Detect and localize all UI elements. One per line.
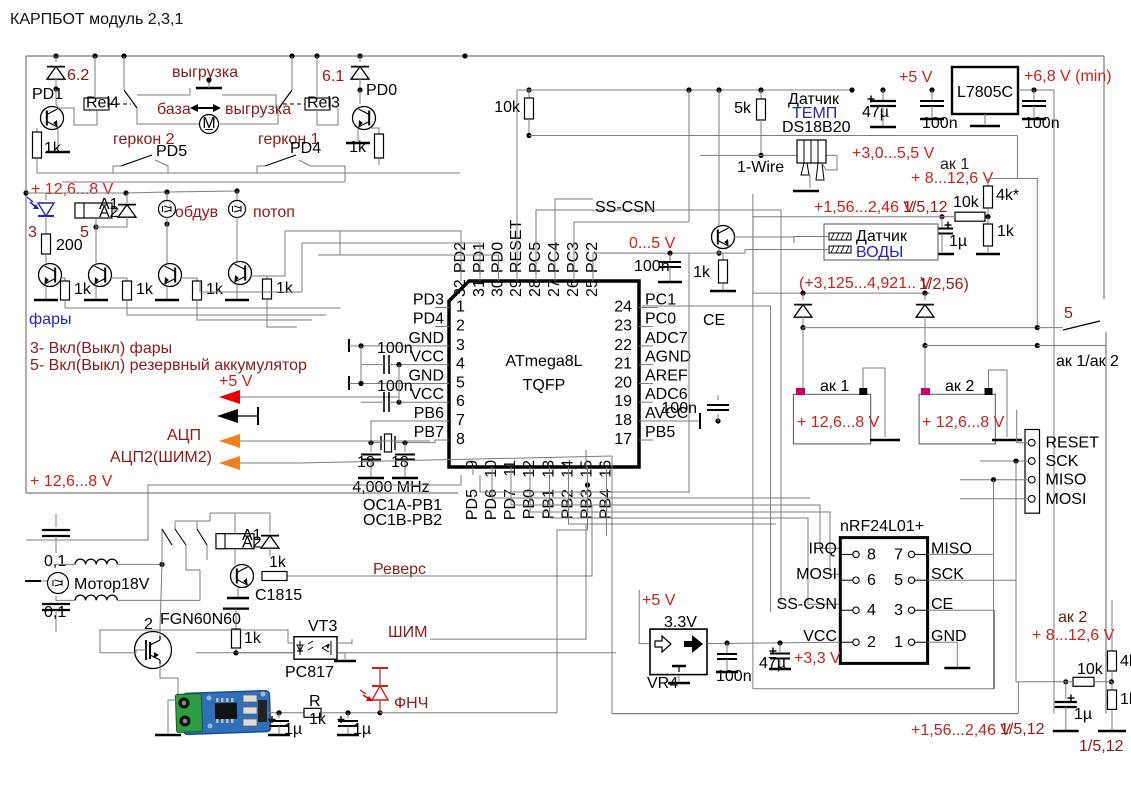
svg-text:3.3V: 3.3V — [664, 614, 697, 631]
arrow АЦП — [219, 434, 240, 448]
node PD1 — [53, 86, 58, 91]
svg-text:1µ: 1µ — [949, 233, 967, 250]
svg-text:22: 22 — [614, 337, 632, 354]
ground L7805C — [984, 114, 986, 124]
wire PB7 — [371, 442, 381, 444]
svg-text:ШИМ: ШИМ — [388, 624, 428, 641]
IC L7805C — [952, 67, 1018, 114]
fan потоп — [236, 191, 238, 200]
pin ISP RESET — [1028, 439, 1035, 446]
svg-text:+3,0...5,5 V: +3,0...5,5 V — [852, 145, 935, 162]
diode ak2 — [924, 293, 926, 300]
IC VR4 3.3V — [650, 629, 707, 675]
module passives — [243, 695, 257, 702]
wire bus 293 — [753, 292, 930, 294]
node обдув — [164, 221, 169, 226]
transistor T3 — [159, 264, 182, 287]
svg-text:100n: 100n — [922, 115, 958, 132]
wire PD1 col — [302, 243, 480, 275]
wire ФНЧ net — [557, 530, 588, 713]
svg-text:8: 8 — [867, 546, 876, 563]
resistor 1k T2 — [110, 278, 127, 281]
svg-text:4k*: 4k* — [1120, 653, 1131, 670]
wire Реверс — [287, 505, 592, 576]
svg-text:ак 2: ак 2 — [945, 378, 974, 395]
ground ak1 — [870, 439, 900, 442]
pin ISP MISO — [1028, 476, 1035, 483]
wire PC2 col — [593, 253, 648, 275]
wire ak2 minus — [989, 370, 1008, 437]
wire ch right3 — [530, 512, 840, 574]
capacitor 1u bottom — [1065, 682, 1067, 699]
svg-text:1k: 1k — [693, 264, 711, 281]
svg-text:4k*: 4k* — [996, 187, 1019, 204]
ground T3 — [166, 286, 168, 300]
wire igbt top — [160, 564, 162, 636]
svg-text:6: 6 — [456, 393, 465, 410]
capacitor avcc 100n — [653, 420, 672, 422]
svg-text:VT3: VT3 — [308, 618, 337, 635]
ground water — [710, 290, 736, 293]
svg-text:0,1: 0,1 — [44, 553, 66, 570]
wire 1-Wire — [700, 154, 761, 156]
svg-text:MISO: MISO — [1046, 472, 1087, 489]
wire Q1 collector to Rel4 — [58, 108, 97, 125]
terminator GND pin5 — [348, 376, 350, 390]
svg-text:+6,8 V (min): +6,8 V (min) — [1024, 68, 1112, 85]
wire PC4 col — [555, 199, 593, 275]
resistor 1k T3 — [180, 278, 197, 281]
ground DS18B20 — [793, 190, 819, 193]
svg-text:1k: 1k — [206, 281, 224, 298]
wire to terminal1 — [794, 237, 829, 244]
wire PC5 col — [536, 210, 648, 275]
wire PD5 long right — [168, 172, 460, 174]
wire выгрузка right throw — [222, 95, 276, 108]
wire top border — [26, 55, 1104, 57]
svg-text:Мотор18V: Мотор18V — [74, 576, 150, 593]
node ak1 sw — [800, 325, 805, 330]
ground Q1 — [57, 129, 59, 152]
svg-text:1/5,12: 1/5,12 — [903, 199, 948, 216]
svg-text:КАРПБОТ модуль 2,3,1: КАРПБОТ модуль 2,3,1 — [10, 11, 183, 28]
svg-text:ADC7: ADC7 — [645, 330, 688, 347]
sensor leads — [801, 163, 809, 175]
svg-text:MOSI: MOSI — [1046, 491, 1087, 508]
svg-text:SCK: SCK — [1046, 453, 1079, 470]
wire T3 base net — [197, 312, 312, 320]
wire L7805 out — [1018, 89, 1054, 91]
svg-text:L7805C: L7805C — [957, 84, 1013, 101]
node module out2 — [345, 710, 350, 715]
node emitter — [716, 251, 721, 256]
svg-text:PB7: PB7 — [414, 424, 444, 441]
svg-text:ФНЧ: ФНЧ — [394, 695, 428, 712]
svg-text:+1,56...2,46 V: +1,56...2,46 V — [911, 722, 1011, 739]
wire left border — [25, 56, 27, 493]
svg-text:18: 18 — [391, 454, 409, 471]
svg-text:18: 18 — [614, 412, 632, 429]
svg-text:RESET: RESET — [1046, 435, 1100, 452]
wire ch right2 — [511, 505, 840, 548]
svg-text:20: 20 — [614, 375, 632, 392]
svg-text:Датчик: Датчик — [856, 228, 908, 245]
capacitor 47u vr4 — [779, 643, 781, 652]
resistor 10k ak1 — [955, 212, 985, 221]
svg-text:потоп: потоп — [253, 204, 295, 221]
svg-text:5: 5 — [456, 375, 465, 392]
pin ISP MOSI — [1028, 495, 1035, 502]
node motor+ — [159, 562, 164, 567]
svg-text:DS18B20: DS18B20 — [782, 119, 851, 136]
wire MISO down — [993, 480, 995, 689]
ground C1815 — [237, 587, 239, 598]
cap plates join — [55, 514, 57, 521]
svg-text:TQFP: TQFP — [523, 377, 566, 394]
transistor T4 — [229, 262, 252, 285]
wire +5 to vr4 — [639, 590, 650, 644]
wire ak2 feed — [1111, 600, 1113, 651]
wire ak2 down — [924, 346, 926, 395]
wire T1 base net — [65, 307, 340, 310]
wire ch7 — [568, 475, 570, 524]
wire выгрузка left throw — [137, 88, 190, 95]
svg-text:+ 12,6...8 V: + 12,6...8 V — [922, 414, 1005, 431]
wire ISP SCK — [980, 460, 1028, 462]
ground ak2 — [992, 439, 1022, 442]
svg-text:200: 200 — [56, 237, 83, 254]
svg-text:24: 24 — [614, 299, 632, 316]
wire motor2 — [199, 570, 201, 600]
wire ch4 — [510, 475, 512, 505]
ground T2 — [95, 286, 97, 300]
box Датчик ВОДЫ — [824, 224, 938, 260]
svg-text:100n: 100n — [377, 340, 413, 357]
svg-text:1k: 1k — [349, 139, 367, 156]
wire ISP MOSI — [960, 498, 1028, 500]
wire ch2 — [480, 475, 690, 492]
wire sensor right lead — [822, 155, 837, 170]
wire PB6 loop — [371, 421, 435, 443]
dashed link Rel4 — [109, 103, 131, 105]
svg-text:3: 3 — [28, 224, 37, 241]
vr4 gnd mark — [672, 665, 686, 668]
svg-text:ак 1: ак 1 — [820, 378, 849, 395]
svg-text:1k: 1k — [276, 280, 294, 297]
svg-text:47µ: 47µ — [862, 104, 889, 121]
transistor T1 фары — [39, 264, 62, 287]
wire потоп to T4 — [236, 217, 238, 261]
wire vr4 out — [707, 642, 840, 643]
svg-text:PC817: PC817 — [285, 664, 334, 681]
terminal - ak2 — [985, 388, 993, 395]
wire right border lower — [1105, 332, 1107, 714]
svg-text:1-Wire: 1-Wire — [737, 159, 784, 176]
svg-text:A2: A2 — [242, 535, 262, 552]
svg-text:PD5: PD5 — [464, 489, 481, 520]
relay coil K-rev — [216, 534, 254, 549]
svg-text:1µ: 1µ — [353, 721, 371, 738]
wire RESET col — [516, 90, 518, 275]
svg-text:Rel4: Rel4 — [86, 95, 119, 112]
relay contacts H — [161, 529, 163, 564]
svg-text:28: 28 — [527, 279, 544, 297]
diode K-rev — [261, 536, 279, 549]
svg-text:100n: 100n — [1024, 115, 1060, 132]
svg-text:1k: 1k — [244, 630, 262, 647]
svg-text:ВОДЫ: ВОДЫ — [856, 244, 903, 261]
resistor 10k bottom — [1073, 677, 1094, 686]
capacitor 100n 0..5 — [669, 253, 671, 262]
wire bus y136 — [529, 135, 1017, 137]
wire +12 rail — [26, 192, 46, 194]
IC nRF24L01+ body — [840, 538, 927, 664]
wire div2 to bus — [1018, 682, 1065, 714]
wire Rel3 bottom to Q2 — [317, 108, 338, 125]
motor Мотор18V — [48, 573, 69, 594]
wire gnd1-vert — [360, 346, 362, 384]
node div2 — [1109, 679, 1114, 684]
pin ISP SCK — [1028, 458, 1035, 465]
IGBT FGN60N60 — [135, 632, 172, 669]
relay K5 coil — [75, 203, 112, 218]
svg-text:31: 31 — [471, 279, 488, 297]
svg-text:+1,56...2,46 V: +1,56...2,46 V — [814, 199, 914, 216]
svg-text:29: 29 — [508, 279, 525, 297]
capacitor 18p #1 — [370, 443, 372, 452]
transistor Q water — [712, 226, 735, 249]
capacitor 0,1 lower — [55, 596, 57, 601]
svg-text:7: 7 — [456, 412, 465, 429]
resistor 1k bottom — [1111, 682, 1113, 690]
resistor 1k T1 — [60, 278, 65, 281]
wire module out — [267, 712, 304, 714]
svg-text:100n: 100n — [716, 668, 752, 685]
wire ch3 — [491, 475, 493, 498]
diode LED red ФНЧ — [377, 710, 382, 715]
switch right contact — [291, 56, 293, 90]
dashed link Rel3 — [283, 103, 305, 105]
svg-text:+ 12,6...8 V: + 12,6...8 V — [30, 473, 113, 490]
wire PD1 to base — [55, 89, 57, 104]
svg-text:1µ: 1µ — [284, 721, 302, 738]
svg-text:АЦП: АЦП — [167, 427, 201, 444]
svg-text:100n: 100n — [661, 400, 697, 417]
wire gate — [136, 650, 146, 653]
vr4 black arrow — [684, 635, 703, 653]
svg-text:1k: 1k — [74, 281, 92, 298]
svg-text:OC1B-PB2: OC1B-PB2 — [363, 512, 442, 529]
wire SS-CSN — [648, 209, 781, 211]
node PD0 — [357, 87, 362, 92]
capacitor 100n avcc2 — [717, 414, 719, 421]
T bar collector — [223, 607, 249, 609]
svg-text:17: 17 — [614, 431, 632, 448]
svg-text:FGN60N60: FGN60N60 — [160, 611, 241, 628]
capacitor 47u input — [880, 87, 885, 92]
svg-text:+ 8...12,6 V: + 8...12,6 V — [911, 170, 994, 187]
svg-text:1/5,12: 1/5,12 — [1079, 738, 1124, 755]
wire PD0 col — [340, 255, 499, 275]
terminal hatched 1 — [829, 233, 851, 240]
svg-text:база: база — [157, 101, 191, 118]
svg-text:0...5 V: 0...5 V — [629, 235, 676, 252]
svg-text:MOSI: MOSI — [796, 566, 837, 583]
svg-text:0,1: 0,1 — [44, 604, 66, 621]
resistor R module — [304, 708, 321, 717]
svg-text:26: 26 — [565, 279, 582, 297]
svg-text:+5 V: +5 V — [899, 69, 933, 86]
wire ch6 — [549, 475, 551, 518]
svg-text:ак 2: ак 2 — [1058, 609, 1087, 626]
wire CE net — [928, 609, 995, 611]
svg-text:1µ: 1µ — [1074, 706, 1092, 723]
node relay A2 — [93, 224, 98, 229]
svg-text:GND: GND — [408, 368, 444, 385]
diode K5 — [126, 193, 128, 198]
svg-text:5- Вкл(Выкл) резервный аккумул: 5- Вкл(Выкл) резервный аккумулятор — [30, 357, 307, 374]
box nrf section — [753, 688, 995, 690]
wire 0..5V bus — [600, 252, 745, 254]
svg-text:1k: 1k — [309, 711, 327, 728]
svg-text:100n: 100n — [634, 258, 670, 275]
svg-text:(+3,125...4,921.. V: (+3,125...4,921.. V — [799, 275, 931, 292]
optocoupler PC817 — [294, 637, 337, 660]
wire col 613 — [611, 456, 613, 714]
wire water base — [734, 237, 794, 243]
svg-text:1k: 1k — [269, 554, 287, 571]
wire staircase PD0b — [318, 231, 340, 255]
module chip — [215, 703, 238, 720]
wire T4 base net — [267, 307, 297, 327]
inductor L2 — [75, 595, 117, 600]
capacitor 100n output — [1033, 90, 1035, 101]
svg-text:+ 12,6...8 V: + 12,6...8 V — [797, 414, 880, 431]
wire Rel3 top — [316, 56, 318, 98]
resistor 4k* bottom — [1108, 651, 1117, 671]
svg-text:Реверс: Реверс — [373, 561, 426, 578]
wire div to adc — [907, 216, 942, 218]
node 1wire — [758, 153, 763, 158]
svg-text:2: 2 — [456, 318, 465, 335]
svg-text:3: 3 — [456, 337, 465, 354]
svg-text:25: 25 — [584, 279, 601, 297]
junction bus y90 — [686, 87, 691, 92]
svg-text:обдув: обдув — [175, 204, 218, 221]
ground 1k bottom — [1098, 730, 1126, 733]
resistor 1k water — [718, 249, 720, 253]
svg-text:АЦП2(ШИМ2): АЦП2(ШИМ2) — [110, 449, 212, 466]
switch left contact — [123, 56, 125, 90]
terminal + ak1 — [796, 388, 805, 395]
resistor 1k ak1 — [987, 217, 989, 224]
wire Rel4 top — [94, 56, 96, 98]
wire ak1 down — [802, 328, 804, 395]
wire ak1 to switch — [803, 327, 1037, 329]
wire ШИМ — [196, 652, 236, 654]
crystal X1 — [380, 436, 382, 450]
wire bus136 corner — [988, 136, 1017, 179]
svg-text:PB6: PB6 — [414, 405, 444, 422]
svg-text:SS-CSN: SS-CSN — [595, 199, 655, 216]
svg-text:+5 V: +5 V — [219, 373, 253, 390]
ground Q2 — [357, 129, 359, 143]
fan обдув — [166, 192, 168, 200]
wire АЦП2 route — [300, 456, 612, 463]
svg-text:Rel3: Rel3 — [307, 95, 340, 112]
svg-text:AREF: AREF — [645, 368, 688, 385]
svg-text:1/2,56): 1/2,56) — [919, 276, 969, 293]
svg-text:CE: CE — [703, 312, 725, 329]
svg-text:SS-CSN: SS-CSN — [777, 596, 837, 613]
node div1 left — [939, 214, 944, 219]
svg-text:10k: 10k — [953, 194, 980, 211]
svg-text:7: 7 — [894, 546, 903, 563]
relay Rel4 box — [84, 98, 109, 110]
svg-text:6: 6 — [867, 572, 876, 589]
svg-text:32: 32 — [452, 279, 469, 297]
wire relay top — [210, 513, 235, 534]
vr4 white arrow — [655, 636, 671, 652]
node gate wire — [233, 650, 238, 655]
resistor 1k Q1 emitter — [36, 128, 38, 132]
svg-text:C1815: C1815 — [255, 587, 302, 604]
IC U1 ATmega8L body — [449, 281, 639, 467]
module terminal block — [175, 694, 202, 733]
wire PD4 to right — [310, 166, 345, 182]
svg-text:27: 27 — [546, 279, 563, 297]
capacitor 100n vr4 — [726, 643, 728, 654]
capacitor 18p #2 — [395, 454, 415, 456]
svg-text:PD5: PD5 — [156, 143, 187, 160]
relay contacts H2 — [196, 521, 198, 529]
battery ак 2 — [919, 394, 995, 444]
node div1 — [985, 214, 990, 219]
svg-text:выгрузка: выгрузка — [225, 101, 291, 118]
reed switch PD4 — [257, 166, 265, 173]
inductor L1 — [75, 559, 117, 564]
svg-text:PD3: PD3 — [413, 292, 444, 309]
svg-text:выгрузка: выгрузка — [172, 64, 238, 81]
capacitor 100n input — [929, 87, 934, 92]
svg-text:21: 21 — [614, 356, 632, 373]
transistor Q2 PD0 — [359, 90, 361, 104]
svg-text:47µ: 47µ — [759, 655, 786, 672]
diode 6.2 — [55, 56, 57, 62]
wire staircase PD1b — [200, 243, 302, 292]
junction top rail — [53, 53, 58, 58]
battery ак 1 — [793, 394, 870, 444]
svg-text:1: 1 — [456, 299, 465, 316]
svg-text:1: 1 — [894, 634, 903, 651]
svg-text:VCC: VCC — [410, 349, 444, 366]
module ACS712 board — [182, 690, 270, 734]
svg-text:A2: A2 — [99, 204, 119, 221]
svg-text:5: 5 — [80, 224, 89, 241]
wire igbt bottom — [160, 664, 178, 700]
wire col 689 lower — [688, 253, 690, 492]
svg-text:10k: 10k — [1077, 661, 1104, 678]
terminal hatched 2 — [829, 246, 851, 253]
LED photon arrows — [363, 695, 371, 700]
wire PD2 col — [285, 231, 461, 275]
wire opto in — [236, 652, 294, 654]
wire ch5 — [529, 475, 531, 512]
sensor DS18B20 body — [797, 140, 826, 163]
svg-text:19: 19 — [614, 393, 632, 410]
svg-text:1k: 1k — [136, 281, 154, 298]
svg-text:AGND: AGND — [645, 349, 691, 366]
